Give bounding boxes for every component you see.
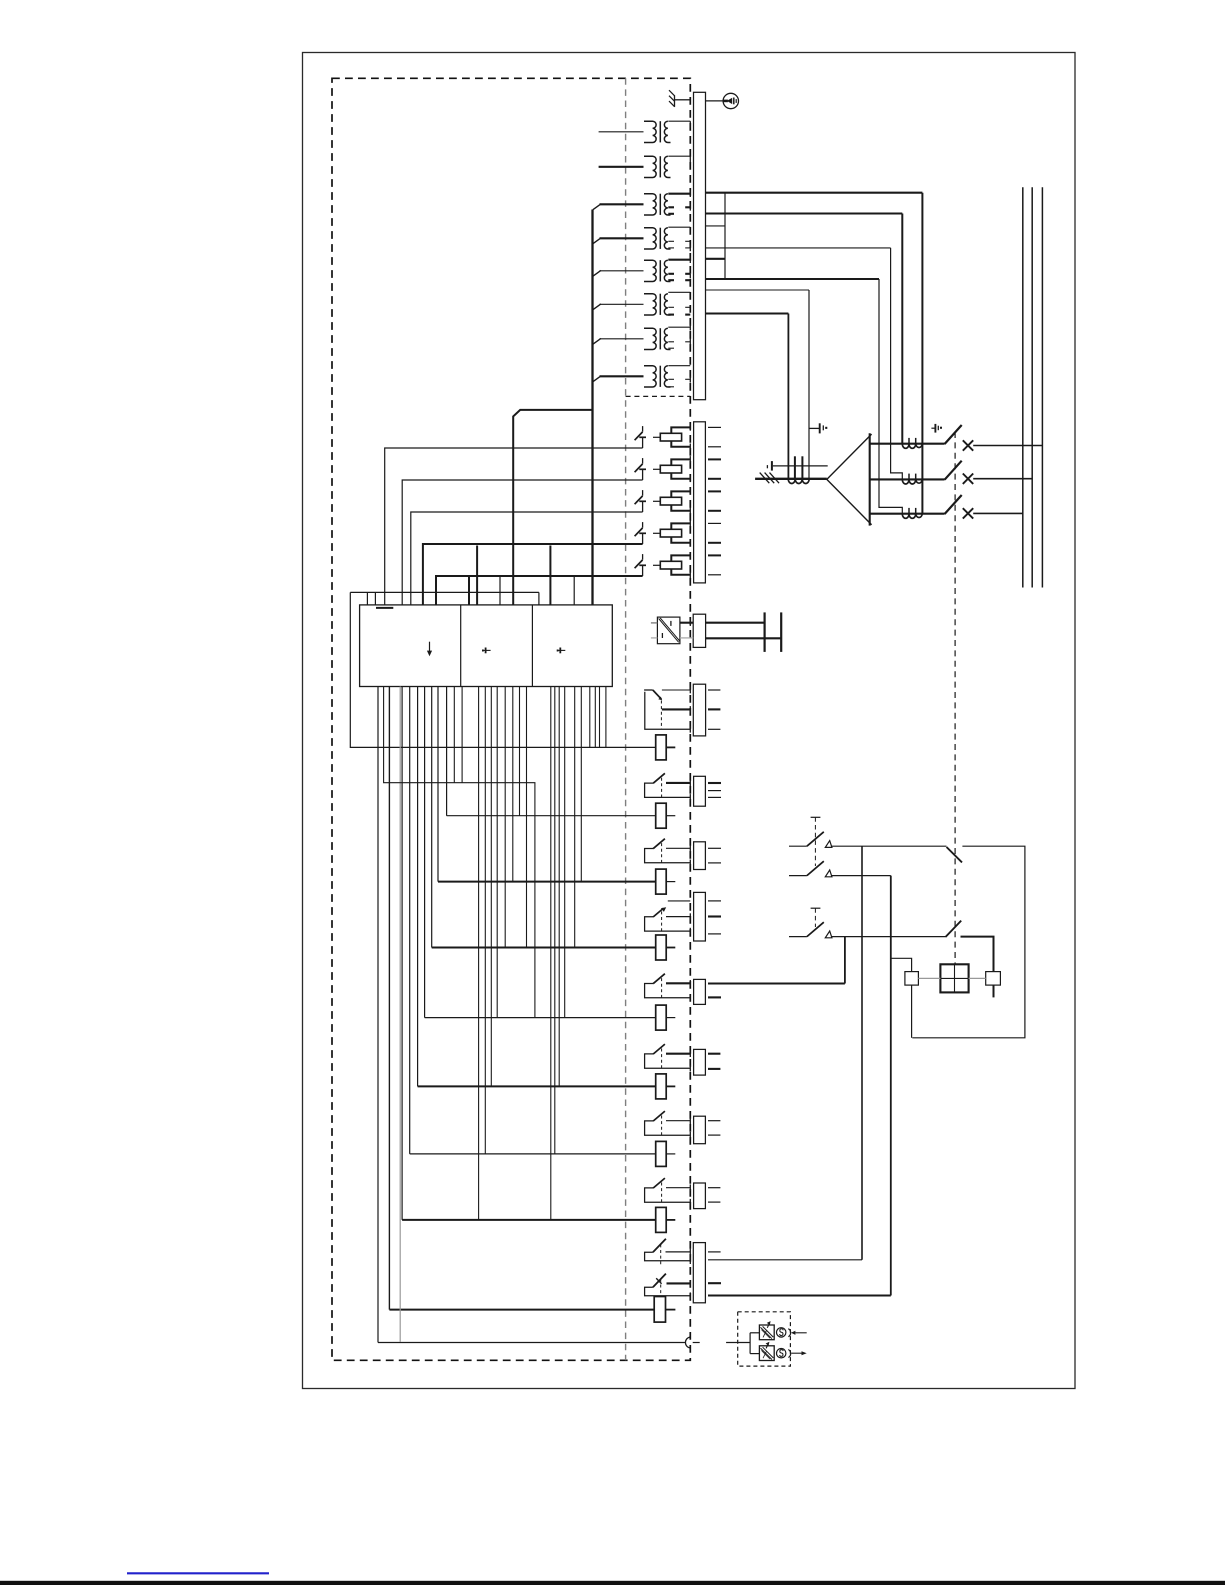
wire T7 secondary top lead <box>668 326 690 328</box>
wire T4 primary lead <box>600 237 644 239</box>
interlock marker K3 <box>931 424 942 433</box>
relay contact K12 <box>645 1044 691 1071</box>
wire K10 fixed lead <box>666 916 690 918</box>
wire T8 primary lead <box>600 375 644 377</box>
wire switch output phase c <box>973 512 1023 514</box>
wire manifold drop 2 <box>538 592 540 605</box>
component R1 (left small box) <box>891 958 919 1038</box>
current transformer T5 <box>644 260 671 281</box>
fuse F11 <box>656 1005 667 1030</box>
fuse F5 <box>653 561 682 569</box>
wire U2 input leads (gray) <box>651 622 658 624</box>
wire output b with arrow <box>788 1350 806 1358</box>
wire riser to grid phase A <box>901 214 903 444</box>
wire T7 mid tap <box>668 341 674 343</box>
terminal stubs K10 <box>708 900 721 902</box>
cubicle enclosure (dashed boundary) <box>332 78 690 1360</box>
wire block pin 16 <box>580 687 582 882</box>
wire F3 lower link <box>671 505 690 511</box>
surge arrester counter (crossed box) <box>940 964 968 992</box>
wire T1 secondary lead <box>668 120 690 122</box>
metering unit (dashed box) <box>738 1312 791 1366</box>
wire T6 secondary top lead <box>668 291 690 293</box>
wire block pin 18 <box>594 687 596 748</box>
riser bus (thick vertical) <box>591 210 593 605</box>
rectifier arrow symbol <box>427 642 432 657</box>
wire manifold drop 1b <box>374 592 376 605</box>
wire bus exit L6 <box>706 312 789 314</box>
machine terminal M <box>706 93 739 108</box>
terminal plate P1 <box>763 612 765 652</box>
terminal bus bar B12 <box>694 1049 706 1075</box>
current transformer T8 <box>644 366 671 387</box>
wire manifold L <box>350 591 539 593</box>
wire distribution feeder 8 <box>437 687 439 882</box>
contact S3 <box>635 490 646 512</box>
relay contact K9 <box>645 839 691 866</box>
wire K15b to disconnector QB <box>708 1294 891 1296</box>
feeder bus phase a (vertical) <box>1022 187 1024 587</box>
disconnector QB <box>789 861 891 877</box>
internal divider (gray dashed) <box>625 78 627 1360</box>
circuit breaker Q6 <box>644 690 690 733</box>
terminal stubs S1 <box>708 426 721 428</box>
relay contact K15b (test) <box>645 1274 691 1299</box>
wire block pin 1 <box>453 687 455 783</box>
wire T5 primary lead <box>600 270 644 272</box>
wire Q6 mid lead <box>662 708 690 710</box>
wire T3 secondary top lead <box>668 193 690 195</box>
junction T6 to riser bus <box>593 304 601 310</box>
wire T7 bottom lead <box>668 347 674 349</box>
relay contact K13 <box>645 1111 691 1138</box>
wire F4 upper link <box>671 523 690 529</box>
wire QA output loop <box>912 846 1025 1038</box>
wire F1 upper link <box>671 427 690 433</box>
wire F5 lower link <box>671 569 690 575</box>
wire K10 top lead <box>668 900 691 902</box>
terminal plate P2 <box>780 612 782 652</box>
wire block pin 13 <box>558 687 560 1087</box>
wire phase line A with winding <box>870 438 945 448</box>
terminal stubs S3 <box>708 490 721 492</box>
fuse F2 <box>653 465 682 473</box>
fuse F4 <box>653 529 682 537</box>
wire switch output phase a <box>973 445 1042 447</box>
wire bus exit n1 <box>706 225 726 227</box>
wire T3 mid tap <box>668 206 674 208</box>
wire block pin 7 <box>504 687 506 948</box>
wire T3 bottom lead <box>668 213 674 215</box>
wire block pin 6 <box>496 687 498 1018</box>
terminal bus bar B14 <box>694 1183 706 1209</box>
wire S2 to supply unit <box>402 480 642 605</box>
indicator lamp H-a <box>777 1328 786 1337</box>
wire QC drop to K11 <box>844 937 846 984</box>
wire distribution feeder 3 <box>401 687 403 1220</box>
wire phase line B with winding <box>870 474 945 484</box>
feeder bus phase b (vertical) <box>1031 187 1033 587</box>
wire K13 fixed lead <box>666 1120 690 1122</box>
terminal stubs K14 <box>708 1187 720 1189</box>
terminal bus bar B4 <box>693 684 705 736</box>
wire metering input <box>726 1333 759 1354</box>
wire block pin 17 <box>589 687 591 748</box>
wire U2 output bottom (gray) <box>680 637 693 639</box>
wire K14 fixed lead <box>666 1187 690 1189</box>
terminal stubs K13 <box>708 1120 720 1122</box>
wire S4 branch drops <box>476 546 478 605</box>
earthing blade QA (open) <box>947 847 963 862</box>
junction T4 to riser bus <box>593 238 601 244</box>
contact S5 <box>635 554 646 576</box>
plug connector (socket) <box>685 1337 699 1348</box>
terminal bus bar B15 <box>693 1243 705 1303</box>
current transformer T7 <box>644 328 671 349</box>
wire T6 bottom lead <box>668 314 674 316</box>
wire phase line C with winding <box>870 508 945 518</box>
disconnector blade phase a <box>945 425 962 444</box>
wire Q6 top lead <box>662 689 690 691</box>
wire K12 fixed lead <box>666 1053 690 1055</box>
wire dc feed with chamfer to riser bus <box>513 410 592 605</box>
disconnector QA <box>789 832 947 848</box>
wire bus exit L5 <box>706 289 810 291</box>
component R2 (right small box) <box>986 972 1001 998</box>
terminal bus bar B13 <box>694 1116 706 1144</box>
current transformer T4 <box>644 228 671 249</box>
wire manifold drop 1 <box>366 592 368 605</box>
wire distribution feeder 1 <box>377 687 379 1343</box>
fuse F12 <box>656 1074 667 1099</box>
fuse F15 <box>654 1297 665 1323</box>
wire U2 output top <box>680 622 693 624</box>
fuse F8 <box>656 803 667 828</box>
wire K15a to disconnector QA <box>708 1259 862 1261</box>
current transformer T1 <box>644 121 671 142</box>
fuse F10 <box>656 935 667 960</box>
terminal bus bar B3 <box>693 614 705 647</box>
wire K15b fixed lead <box>667 1282 691 1284</box>
current transformer T2 <box>644 156 671 177</box>
dc/dc converter U2 <box>657 617 680 644</box>
wire gray auxiliary <box>399 687 401 1343</box>
wire output a with plug <box>788 1329 806 1337</box>
wire T4 mid tap <box>668 240 674 242</box>
power supply unit (3-section block) <box>360 605 613 687</box>
wire B3 to plates <box>706 622 765 624</box>
transducer T-a <box>759 1321 774 1340</box>
wire riser to coil B feed <box>891 248 903 480</box>
switch X phase c <box>963 508 973 518</box>
matching transformer (triangle) <box>827 433 872 525</box>
wire S3 to supply unit <box>411 512 643 605</box>
wire bus exit n2 <box>706 258 726 260</box>
wire block pin 19 <box>599 687 601 748</box>
control link dashed vertical <box>954 432 956 964</box>
wire T6 mid tap <box>668 306 674 308</box>
junction T5 to riser bus <box>593 270 601 276</box>
disconnector QC <box>789 922 947 938</box>
terminal stubs S5 <box>708 554 721 556</box>
wire block pin 15 <box>574 687 576 948</box>
instrument-transformer compartment divider (dashed) <box>626 395 691 397</box>
wire block pin 8 <box>512 687 514 882</box>
battery symbol section 2 <box>482 648 491 654</box>
wire block pin 12 <box>554 687 556 1154</box>
wire riser to compensator coil left <box>787 314 789 480</box>
wire T8 mid tap <box>668 378 674 380</box>
disconnector blade phase b <box>945 461 962 480</box>
wire block pin 20 <box>605 687 607 748</box>
wire T5 secondary top lead <box>668 259 690 261</box>
wire distribution feeder 4 <box>409 687 411 1154</box>
wire bus exit L3 <box>706 247 891 249</box>
wire K11 to disconnector QC <box>708 982 845 984</box>
wire block pin 10 <box>526 687 528 948</box>
terminal stubs S2 <box>708 458 721 460</box>
transducer T-b <box>759 1342 774 1361</box>
wire distribution feeder 6 <box>424 687 426 1018</box>
wire T7 primary lead <box>600 338 644 340</box>
wire F5 upper link <box>671 555 690 561</box>
terminal bus bar B9 <box>694 842 706 870</box>
wire riser to compensator coil right <box>808 290 810 479</box>
terminal bus bar B8 <box>694 776 706 806</box>
wire F4 lower link <box>671 537 690 543</box>
interlock marker K1 <box>767 461 827 471</box>
feeder bus phase c (vertical) <box>1041 187 1043 587</box>
wire gray link right <box>969 977 986 979</box>
terminal stubs K11 <box>708 996 721 998</box>
wire S5 to supply unit <box>436 576 643 605</box>
terminal bus bar B11 <box>694 979 706 1004</box>
terminal stubs K8 <box>708 782 721 784</box>
terminal stubs K9 <box>708 847 721 849</box>
fuse F14 <box>656 1207 667 1232</box>
interlock marker K2 <box>809 423 827 433</box>
indicator lamp H-b <box>777 1349 786 1358</box>
wire distribution feeder 9 <box>446 687 448 816</box>
fuse F3 <box>653 497 682 505</box>
battery symbol section 3 <box>557 648 566 654</box>
wire F3 upper link <box>671 491 690 497</box>
terminal stubs S4 <box>708 522 721 524</box>
wire bus exit L2 <box>706 212 903 214</box>
fuse F13 <box>656 1141 667 1166</box>
wire T2 secondary lead <box>668 155 690 157</box>
contact S1 <box>635 426 646 448</box>
wire left feeder to F7 rail <box>350 592 655 747</box>
wire block pin 4 <box>484 687 486 1154</box>
current transformer T3 <box>644 194 671 215</box>
terminal stubs Q6 <box>708 689 720 691</box>
wire S1 to supply unit <box>385 448 643 605</box>
wire distribution feeder 7 <box>431 687 433 948</box>
junction T8 to riser bus <box>593 376 601 382</box>
wire K9 fixed lead <box>666 847 690 849</box>
wire T4 secondary top lead <box>668 226 690 228</box>
wire S5 branch drops <box>468 577 470 605</box>
contact S4 <box>635 522 646 544</box>
wire T8 secondary top lead <box>668 365 690 367</box>
wire QA drop to K15a <box>861 846 863 1260</box>
terminal bus bar B1 <box>694 92 706 399</box>
wire S4 to supply unit <box>423 544 643 605</box>
wire K15a fixed lead <box>666 1251 691 1253</box>
wire auxiliary rail via 783 <box>384 687 535 1018</box>
linkage QA-QB (dashed with tee) <box>811 817 821 866</box>
wire F1 lower link <box>671 441 690 447</box>
wire K8 fixed lead <box>666 782 690 784</box>
wire bottom rail to plug <box>378 1342 685 1344</box>
relay contact K15a <box>645 1239 691 1266</box>
fuse F9 <box>656 869 667 894</box>
wire T6 primary lead <box>600 303 644 305</box>
wire T4 bottom lead <box>668 247 674 249</box>
relay contact K14 <box>645 1178 691 1205</box>
terminal bus bar B2 <box>694 422 706 583</box>
switch X phase b <box>963 474 973 484</box>
wire block pin 5 <box>490 687 492 1087</box>
relay contact K11 <box>645 974 691 1001</box>
relay contact K8 <box>645 773 691 800</box>
wire F2 upper link <box>671 459 690 465</box>
wire block pin 2 <box>461 687 463 783</box>
wire T3 primary lead <box>600 203 644 205</box>
wire block pin 9 <box>519 687 521 816</box>
wire T8 bottom lead <box>668 386 674 388</box>
linkage QC (dashed with tee) <box>811 908 821 927</box>
wire T1 primary lead <box>599 131 644 133</box>
wire riser to coil C feed <box>879 279 902 514</box>
fuse F7 <box>656 735 667 760</box>
wire T5 mid tap <box>668 273 674 275</box>
wire distribution feeder 5 <box>417 687 419 1087</box>
contact S2 <box>635 458 646 480</box>
junction T7 to riser bus <box>593 338 601 344</box>
wire K11 fixed lead <box>666 982 690 984</box>
wire neutral tie vertical <box>724 193 726 279</box>
terminal stubs K12 <box>708 1053 720 1055</box>
petersen coil with hatched earth end <box>755 456 827 483</box>
terminal bus bar B10 <box>694 892 706 941</box>
wire T5 bottom lead <box>668 279 674 281</box>
wire distribution feeder 2 <box>388 687 390 1310</box>
wire switch output phase b <box>973 478 1032 480</box>
chassis ground (hatched) <box>669 90 690 107</box>
wire bus exit L4 <box>706 278 880 280</box>
wire QB drop to K15b <box>890 876 892 1296</box>
wire block pin 3 <box>478 687 480 1220</box>
wire riser to grid phase C <box>921 193 923 514</box>
relay contact K10 <box>645 907 691 934</box>
wire T2 primary lead <box>599 166 644 168</box>
earthing blade QC (open) <box>946 921 962 937</box>
disconnector blade phase c <box>945 495 962 514</box>
wire F2 lower link <box>671 473 690 479</box>
switch X phase a <box>963 440 973 450</box>
wire bus exit L1 <box>706 192 923 194</box>
wire block pin 11 <box>550 687 552 1220</box>
fuse F1 <box>653 433 682 441</box>
terminal stubs K15 <box>708 1251 721 1253</box>
wire block pin 14 <box>564 687 566 1018</box>
junction T3 to riser bus <box>593 204 601 210</box>
current transformer T6 <box>644 294 671 315</box>
wire gray link left <box>918 977 940 979</box>
wire QC output <box>961 937 994 972</box>
